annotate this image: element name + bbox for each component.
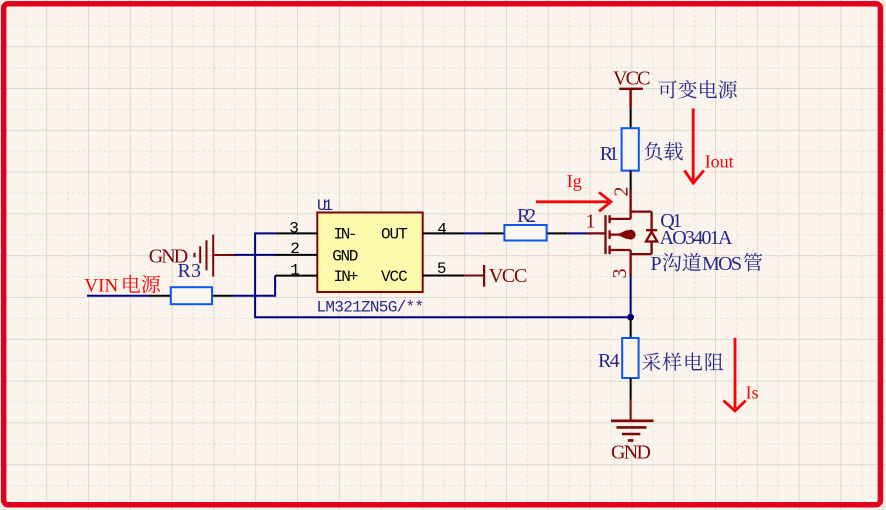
- svg-text:2: 2: [290, 240, 300, 258]
- svg-text:5: 5: [437, 260, 447, 278]
- wire VCC to R1: [630, 108, 632, 128]
- svg-text:OUT: OUT: [381, 225, 408, 243]
- wire OUT to R2: [465, 232, 484, 234]
- wire Q1 source to node: [630, 276, 632, 318]
- svg-text:MOS: MOS: [702, 253, 742, 275]
- svg-text:P: P: [651, 253, 662, 275]
- resistor R2: [483, 232, 504, 234]
- power port GND (left): [195, 235, 235, 277]
- svg-text:3: 3: [289, 219, 299, 237]
- U1 pin 2 GND: [275, 254, 317, 256]
- U1 pin 5 VCC: [423, 275, 465, 277]
- svg-text:2: 2: [610, 187, 632, 197]
- svg-text:Iout: Iout: [705, 152, 734, 172]
- svg-text:IN+: IN+: [334, 268, 359, 286]
- svg-text:R4: R4: [598, 350, 620, 372]
- wire R4 to GND: [630, 378, 632, 400]
- svg-text:R3: R3: [178, 260, 202, 282]
- svg-text:GND: GND: [332, 248, 358, 266]
- svg-text:Ig: Ig: [567, 171, 582, 191]
- svg-text:VIN: VIN: [84, 276, 118, 297]
- svg-text:VCC: VCC: [613, 68, 651, 90]
- resistor R1: [622, 128, 639, 170]
- svg-text:3: 3: [609, 269, 631, 279]
- U1 pin 1 IN+: [275, 275, 317, 277]
- current arrow Iout: [684, 108, 704, 183]
- label 采样电阻: [642, 353, 661, 371]
- wire R1 to Q1 drain: [630, 171, 632, 190]
- svg-text:LM321ZN5G/**: LM321ZN5G/**: [317, 299, 425, 317]
- U1 pin 3 IN-: [275, 232, 317, 234]
- U1 pin 4 OUT: [423, 232, 465, 234]
- wire VIN to R3: [87, 295, 151, 297]
- resistor R3: [150, 295, 171, 297]
- op-amp U1 body: [317, 213, 422, 293]
- power port VCC (pin5): [464, 275, 483, 277]
- svg-text:R2: R2: [517, 205, 536, 227]
- wire GND to U1 pin 2: [234, 254, 276, 256]
- current arrow Is: [724, 338, 746, 411]
- current arrow Ig: [536, 192, 611, 211]
- svg-text:VCC: VCC: [489, 265, 528, 287]
- wire R2 to Q1 gate: [568, 232, 587, 234]
- svg-text:Is: Is: [746, 382, 759, 402]
- svg-text:R1: R1: [600, 143, 619, 165]
- junction node: [627, 314, 634, 321]
- svg-text:4: 4: [437, 221, 447, 239]
- wire R3 to IN+ riser: [233, 276, 275, 296]
- svg-text:U1: U1: [317, 197, 333, 215]
- resistor R4: [630, 317, 632, 338]
- wire IN- riser and feedback run: [255, 233, 630, 317]
- svg-text:VCC: VCC: [381, 268, 408, 286]
- svg-text:1: 1: [290, 261, 300, 279]
- label 可变电源: [658, 81, 676, 99]
- ground GND (bottom): [611, 421, 654, 441]
- svg-text:AO3401A: AO3401A: [660, 227, 734, 249]
- label 负载: [644, 142, 662, 161]
- svg-text:GND: GND: [611, 442, 651, 464]
- svg-text:1: 1: [586, 211, 596, 233]
- svg-text:IN-: IN-: [334, 225, 358, 243]
- transistor Q1 P-MOSFET: [587, 190, 657, 276]
